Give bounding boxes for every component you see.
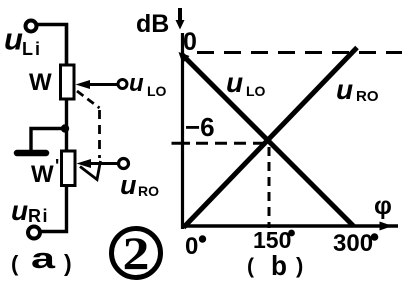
ground <box>17 150 46 157</box>
svg-text:LO: LO <box>147 83 167 99</box>
svg-text:dB: dB <box>136 10 169 38</box>
label u_Ri <box>11 195 49 226</box>
svg-text:−6: −6 <box>185 112 215 142</box>
label u_LO on graph <box>226 67 266 99</box>
dashed coupling link W to W' <box>77 91 101 180</box>
potentiometer W' <box>62 151 76 186</box>
label 300 deg <box>333 230 378 257</box>
wire junction to ground <box>31 129 64 151</box>
dashed -6 dB line <box>196 142 271 145</box>
svg-text:0: 0 <box>185 233 198 260</box>
svg-text:u: u <box>11 195 28 226</box>
u_LO curve descending <box>179 52 354 226</box>
terminal u_Ri <box>28 227 40 239</box>
svg-text:RO: RO <box>356 88 379 105</box>
svg-text:W: W <box>31 161 54 188</box>
dashed 0 dB line <box>197 51 402 54</box>
y-axis <box>181 33 184 229</box>
figure number circle 2 <box>112 228 161 280</box>
svg-text:(: ( <box>11 251 19 276</box>
svg-text:Li: Li <box>22 39 42 59</box>
wire from u_Li to W top <box>37 25 67 67</box>
u_RO curve ascending <box>184 48 358 228</box>
svg-text:RO: RO <box>138 183 159 199</box>
svg-text:b: b <box>271 250 287 281</box>
wire W' bottom to u_Ri <box>40 186 67 232</box>
label 150 deg <box>253 227 295 253</box>
svg-text:Ri: Ri <box>28 206 49 226</box>
svg-text:u: u <box>336 74 353 105</box>
svg-text:0: 0 <box>183 28 197 56</box>
svg-text:': ' <box>55 156 59 176</box>
svg-text:u: u <box>4 22 23 57</box>
label u_RO <box>120 170 159 200</box>
svg-text:W: W <box>29 69 52 96</box>
y-axis top arrow <box>176 8 185 30</box>
junction node <box>61 124 69 132</box>
svg-text:φ: φ <box>374 192 392 220</box>
label u_LO <box>129 70 167 99</box>
terminal u_RO <box>119 159 129 169</box>
dashed vertical at 150 deg <box>268 147 271 228</box>
label (a) <box>11 243 72 276</box>
label (b) <box>247 250 303 281</box>
label 0 deg <box>185 233 206 260</box>
svg-text:u: u <box>226 67 243 98</box>
potentiometer W <box>61 65 75 99</box>
svg-text:): ) <box>64 250 72 276</box>
svg-text:LO: LO <box>246 83 266 99</box>
svg-text:u: u <box>120 170 137 200</box>
svg-text:): ) <box>296 253 303 278</box>
-6 tick on y-axis <box>172 142 191 145</box>
label u_RO on graph <box>336 74 379 105</box>
x-axis <box>181 222 398 231</box>
wire W bottom to W' top <box>65 99 68 151</box>
label u_Li <box>4 22 42 60</box>
terminal u_LO <box>118 80 127 89</box>
wiper arrow W <box>76 80 118 89</box>
terminal u_Li <box>26 21 37 32</box>
svg-text:300: 300 <box>333 230 373 257</box>
svg-text:u: u <box>129 70 144 97</box>
svg-text:(: ( <box>247 255 254 278</box>
label W' <box>31 156 59 188</box>
svg-text:a: a <box>31 243 56 275</box>
wiper arrow W' <box>77 159 119 168</box>
svg-text:2: 2 <box>123 228 150 280</box>
